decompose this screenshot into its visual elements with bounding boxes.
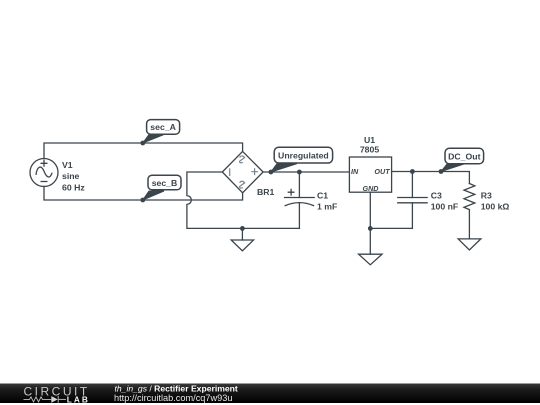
svg-text:100 kΩ: 100 kΩ (481, 201, 510, 211)
svg-text:1 mF: 1 mF (317, 201, 337, 211)
svg-text:R3: R3 (481, 191, 492, 201)
svg-text:C3: C3 (431, 191, 442, 201)
svg-text:http://circuitlab.com/cq7w93u: http://circuitlab.com/cq7w93u (114, 393, 232, 403)
svg-text:100 nF: 100 nF (431, 201, 459, 211)
svg-text:OUT: OUT (374, 167, 390, 176)
svg-text:GND: GND (363, 184, 379, 193)
svg-text:DC_Out: DC_Out (448, 151, 480, 161)
svg-text:sec_A: sec_A (150, 122, 176, 132)
svg-text:sine: sine (62, 171, 80, 181)
svg-text:V1: V1 (62, 160, 73, 170)
svg-text:U1: U1 (364, 135, 375, 145)
svg-text:sec_B: sec_B (152, 178, 178, 188)
svg-text:BR1: BR1 (257, 187, 275, 197)
svg-text:IN: IN (351, 167, 359, 176)
svg-text:C1: C1 (317, 191, 328, 201)
svg-text:Unregulated: Unregulated (278, 150, 329, 160)
svg-text:60 Hz: 60 Hz (62, 182, 85, 192)
svg-text:7805: 7805 (360, 145, 379, 155)
svg-text:LAB: LAB (67, 394, 90, 404)
